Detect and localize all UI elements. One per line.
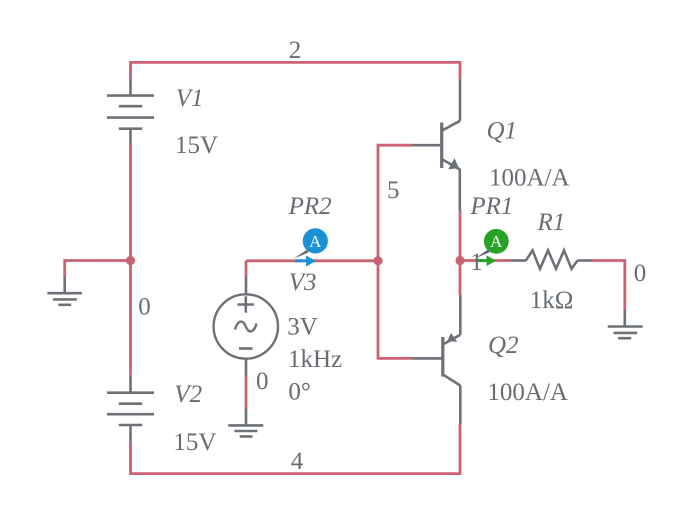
- svg-text:1: 1: [470, 249, 483, 276]
- svg-text:0: 0: [634, 260, 647, 287]
- svg-text:A: A: [490, 232, 503, 251]
- svg-text:V3: V3: [289, 269, 317, 296]
- svg-text:15V: 15V: [173, 429, 216, 456]
- svg-text:4: 4: [291, 448, 304, 475]
- svg-text:A: A: [309, 232, 322, 251]
- svg-text:0°: 0°: [288, 378, 311, 405]
- svg-text:1kΩ: 1kΩ: [530, 287, 574, 314]
- svg-text:0: 0: [138, 294, 151, 321]
- svg-text:100A/A: 100A/A: [489, 164, 570, 191]
- svg-text:3V: 3V: [287, 314, 318, 341]
- svg-text:V1: V1: [176, 85, 204, 112]
- svg-text:2: 2: [289, 37, 302, 64]
- svg-text:0: 0: [256, 368, 269, 395]
- svg-text:R1: R1: [537, 209, 566, 236]
- svg-text:1kHz: 1kHz: [288, 346, 342, 373]
- svg-text:Q2: Q2: [488, 332, 519, 359]
- svg-text:5: 5: [387, 177, 400, 204]
- svg-text:PR1: PR1: [469, 193, 513, 220]
- svg-text:V2: V2: [174, 381, 202, 408]
- svg-text:100A/A: 100A/A: [487, 379, 568, 406]
- svg-text:PR2: PR2: [288, 193, 332, 220]
- svg-text:15V: 15V: [175, 132, 218, 159]
- svg-text:Q1: Q1: [487, 118, 518, 145]
